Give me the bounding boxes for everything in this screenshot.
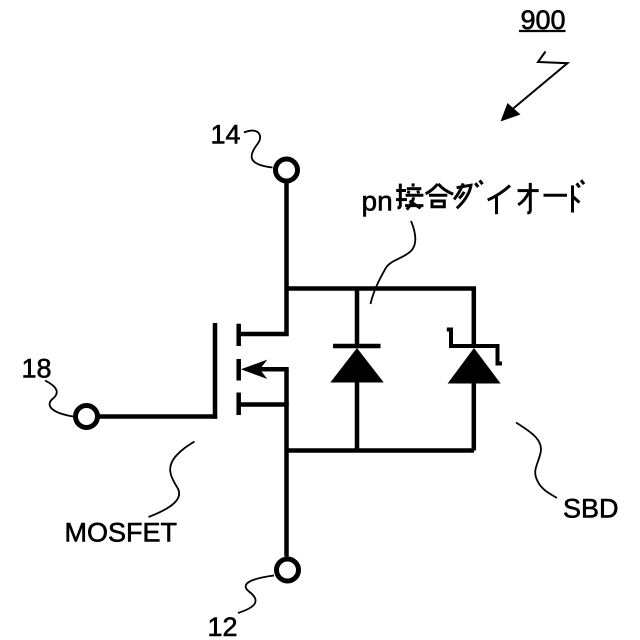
MOSFET source connection	[239, 402, 289, 407]
svg-text:12: 12	[208, 612, 238, 640]
wire: pn diode branch lower vertical	[355, 382, 360, 451]
diode D2 (SBD) schottky cathode bar with hooks	[447, 330, 502, 364]
wire: gate horizontal from terminal 18	[97, 414, 217, 419]
kanji 合	[426, 184, 454, 207]
svg-text:14: 14	[211, 120, 241, 150]
leader from SBD label to D2	[516, 423, 557, 499]
MOSFET gate electrode bar	[213, 323, 218, 419]
svg-text:SBD: SBD	[563, 494, 619, 524]
label pn junction diode (pn接合ダイオード)	[362, 180, 585, 216]
terminal 14 circle	[276, 159, 298, 181]
leader from 14 to terminal	[244, 131, 273, 168]
diode D1 (pn junction) triangle	[330, 348, 383, 383]
katakana イ	[488, 186, 510, 215]
diode D1 (pn junction) cathode bar	[333, 344, 381, 349]
leader from 18 to terminal	[45, 381, 73, 417]
wire: top horizontal to SBD branch with corner down	[287, 289, 474, 346]
leader from MOSFET label to transistor	[149, 442, 195, 518]
katakana オ	[518, 183, 539, 213]
terminal 12 circle	[277, 559, 299, 581]
wire: bottom horizontal	[287, 448, 475, 453]
wire: source vertical down to terminal 12	[284, 369, 289, 556]
svg-text:MOSFET: MOSFET	[65, 518, 178, 548]
wire: SBD branch lower vertical	[472, 383, 477, 451]
svg-text:pn: pn	[362, 186, 393, 217]
leader from 12 to terminal	[238, 576, 274, 614]
wire: drain vertical from terminal 14 down to MOSFET drain	[239, 183, 287, 334]
kanji 接	[396, 183, 423, 209]
terminal 18 circle	[76, 406, 98, 428]
svg-text:18: 18	[22, 354, 52, 384]
diode D2 (SBD) triangle	[448, 348, 501, 384]
katakana ド	[573, 180, 585, 212]
wire: pn diode branch upper vertical	[355, 289, 360, 347]
reference numeral 900	[519, 5, 566, 35]
MOSFET body arrow	[241, 360, 289, 379]
katakana ダ	[454, 180, 482, 208]
leader arrow to 900	[501, 52, 568, 122]
katakana ー (chouon)	[544, 194, 568, 197]
leader from pn label to D1	[371, 221, 416, 304]
MOSFET channel bars	[236, 324, 241, 415]
